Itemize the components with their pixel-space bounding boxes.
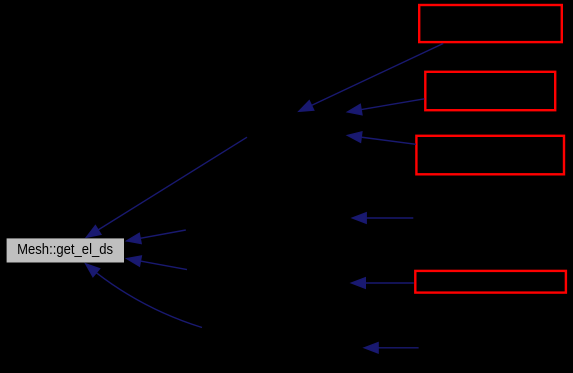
svg-text:Mesh::get_el_ds: Mesh::get_el_ds [17, 242, 113, 258]
